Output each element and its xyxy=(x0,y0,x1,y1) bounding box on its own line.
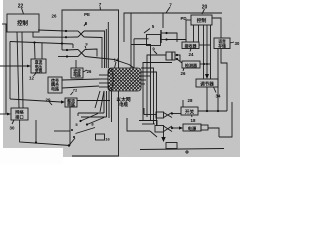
svg-text:电缆: 电缆 xyxy=(119,101,128,108)
svg-text:电路: 电路 xyxy=(73,73,81,78)
svg-text:72: 72 xyxy=(73,88,78,93)
svg-text:接口: 接口 xyxy=(15,113,23,120)
svg-text:30: 30 xyxy=(10,126,15,131)
svg-text:26: 26 xyxy=(181,71,186,76)
svg-text:7: 7 xyxy=(99,2,102,7)
svg-text:电压: 电压 xyxy=(35,64,43,69)
svg-text:18: 18 xyxy=(191,118,196,123)
svg-text:PD: PD xyxy=(180,16,186,21)
svg-text:电路: 电路 xyxy=(51,85,59,91)
svg-text:PE: PE xyxy=(84,12,90,17)
svg-text:7: 7 xyxy=(169,3,172,8)
svg-text:直流: 直流 xyxy=(35,60,43,65)
svg-text:26: 26 xyxy=(52,14,57,19)
svg-text:存储: 存储 xyxy=(217,43,226,48)
svg-text:检测器: 检测器 xyxy=(185,62,198,68)
svg-text:电源: 电源 xyxy=(188,125,197,132)
svg-text:20: 20 xyxy=(202,5,208,11)
svg-text:语音: 语音 xyxy=(218,39,226,44)
svg-text:14: 14 xyxy=(114,58,119,63)
svg-text:24: 24 xyxy=(189,52,194,57)
svg-text:29: 29 xyxy=(46,98,51,103)
svg-text:控制: 控制 xyxy=(197,17,207,24)
svg-text:12: 12 xyxy=(29,76,34,81)
svg-text:开关: 开关 xyxy=(185,109,195,116)
svg-text:16: 16 xyxy=(105,137,110,142)
svg-text:调节器: 调节器 xyxy=(200,80,214,87)
svg-text:22: 22 xyxy=(18,4,24,10)
svg-text:控制: 控制 xyxy=(17,19,28,27)
svg-text:26: 26 xyxy=(87,69,92,74)
svg-text:34: 34 xyxy=(216,94,221,99)
svg-text:变换: 变换 xyxy=(35,68,43,73)
svg-text:28: 28 xyxy=(188,98,193,103)
svg-text:电路: 电路 xyxy=(67,102,75,107)
svg-text:接收器: 接收器 xyxy=(185,43,198,49)
svg-text:30: 30 xyxy=(235,41,240,46)
